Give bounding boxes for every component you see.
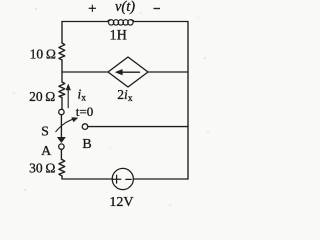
scan speckles — [8, 8, 209, 205]
svg-text:10 Ω: 10 Ω — [30, 46, 56, 61]
paper background — [0, 0, 223, 220]
wire middle-right segment — [148, 71, 188, 73]
svg-text:+: + — [88, 1, 96, 17]
wire bottom-right segment — [133, 178, 188, 180]
voltage source minus sign — [126, 178, 131, 180]
current arrow ix — [66, 84, 70, 108]
svg-text:1H: 1H — [110, 27, 127, 43]
svg-text:A: A — [41, 144, 52, 159]
svg-text:v(t): v(t) — [115, 0, 135, 15]
wire between R1 and middle node — [61, 60, 63, 72]
svg-text:20 Ω: 20 Ω — [29, 89, 55, 104]
terminal B circle — [82, 124, 88, 130]
svg-text:B: B — [82, 137, 91, 152]
resistor R1 10ohm zigzag — [59, 43, 65, 60]
wire top-left segment — [62, 21, 108, 23]
svg-text:30 Ω: 30 Ω — [29, 161, 55, 176]
switch motion arrow t=0 — [56, 118, 78, 132]
dependent source arrow — [116, 70, 140, 75]
wire right vertical — [187, 22, 189, 180]
wire between A and R3 — [60, 149, 63, 159]
inductor L1 coil — [108, 20, 135, 25]
switch pole terminal — [59, 109, 64, 114]
label minus polarity — [154, 8, 161, 10]
voltage source plus sign — [112, 175, 120, 183]
wire bottom-left segment — [62, 176, 112, 179]
wire between R2 and switch pole — [61, 98, 63, 110]
resistor R3 30ohm zigzag — [59, 160, 65, 177]
wire from B to right vertical — [88, 126, 188, 128]
wire top-right segment — [134, 21, 188, 23]
terminal A circle — [59, 144, 64, 149]
wire middle-left segment — [62, 71, 108, 73]
switch blade — [58, 115, 66, 143]
resistor R2 20ohm zigzag — [59, 82, 65, 98]
voltage source V1 circle — [112, 168, 133, 189]
wire left vertical upper — [61, 22, 63, 44]
wire between middle node and R2 — [61, 72, 63, 82]
svg-text:12V: 12V — [109, 195, 133, 210]
dependent source U1 diamond — [108, 57, 148, 87]
svg-text:S: S — [41, 125, 49, 140]
svg-text:t=0: t=0 — [76, 104, 93, 119]
